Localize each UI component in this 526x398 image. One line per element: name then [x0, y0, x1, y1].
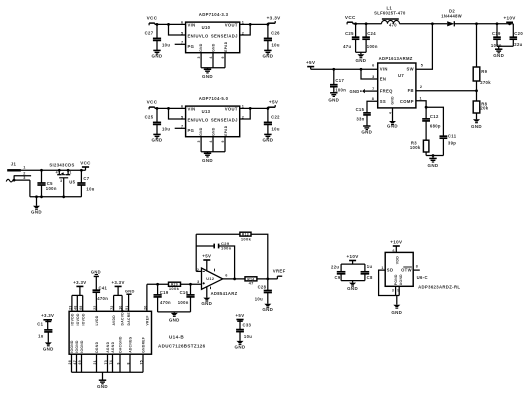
pin labels U14-B top — [71, 309, 150, 325]
svg-text:U13: U13 — [202, 109, 211, 114]
svg-text:AGND: AGND — [106, 341, 110, 352]
ground — [471, 119, 482, 129]
svg-text:C20: C20 — [514, 31, 523, 36]
svg-text:1: 1 — [381, 266, 383, 270]
capacitor C25 — [343, 24, 359, 53]
svg-text:GND: GND — [202, 74, 213, 79]
wire — [169, 24, 186, 35]
svg-text:20k: 20k — [480, 106, 488, 111]
svg-text:10u: 10u — [255, 297, 263, 302]
svg-text:VIN: VIN — [188, 107, 196, 112]
svg-text:C12: C12 — [430, 114, 439, 119]
wire (feedback riser) — [196, 234, 201, 271]
svg-text:+5V: +5V — [269, 100, 279, 105]
svg-text:AD8541ARZ: AD8541ARZ — [211, 291, 238, 296]
svg-text:GND: GND — [43, 346, 54, 351]
svg-text:DACVDD: DACVDD — [121, 309, 125, 325]
svg-text:SI2343CDS: SI2343CDS — [49, 162, 74, 167]
svg-text:C7: C7 — [83, 176, 89, 181]
svg-text:100k: 100k — [241, 237, 252, 242]
pin numbers U13 bottom — [197, 140, 225, 142]
wire — [155, 107, 186, 110]
pin numbers U5 — [56, 171, 72, 183]
svg-text:7: 7 — [372, 87, 374, 91]
svg-text:C8: C8 — [367, 275, 373, 280]
ground — [361, 126, 372, 134]
power flag +3.3V (C1) — [41, 313, 54, 330]
power flag VCC (ADP7104-5.0 input) — [147, 100, 158, 110]
svg-text:100k: 100k — [410, 145, 421, 150]
pin numbers U14-B bottom — [68, 360, 143, 364]
svg-text:EN: EN — [380, 77, 387, 82]
power flag +3.3V (IOVDD) — [73, 280, 86, 296]
svg-text:10u: 10u — [162, 126, 170, 131]
svg-text:LVDD: LVDD — [95, 315, 99, 325]
ground — [262, 134, 273, 142]
svg-text:GND: GND — [31, 209, 42, 214]
svg-text:C25: C25 — [145, 115, 154, 120]
svg-text:470n: 470n — [160, 300, 171, 305]
wire (SENSE loop) — [240, 108, 251, 119]
svg-text:DACREF: DACREF — [127, 310, 131, 326]
svg-text:680p: 680p — [430, 123, 441, 128]
svg-text:6: 6 — [181, 105, 183, 109]
svg-text:PG: PG — [188, 44, 195, 49]
svg-text:IOGND: IOGND — [75, 340, 79, 353]
ground — [202, 153, 213, 163]
svg-text:VIN: VIN — [380, 67, 388, 72]
wire — [356, 52, 367, 54]
svg-text:C33: C33 — [243, 322, 252, 327]
svg-text:68: 68 — [79, 305, 83, 309]
svg-text:3: 3 — [392, 288, 394, 292]
svg-text:VREF: VREF — [146, 315, 150, 325]
svg-text:73: 73 — [104, 360, 108, 364]
svg-text:270k: 270k — [480, 80, 491, 85]
svg-text:ADP3623ARDZ-RL: ADP3623ARDZ-RL — [418, 284, 460, 289]
transistor U5 SI2343CDS — [49, 162, 75, 196]
svg-text:C9: C9 — [335, 275, 341, 280]
svg-text:VCC: VCC — [147, 100, 158, 105]
svg-text:GNDREF: GNDREF — [142, 337, 146, 353]
ground — [262, 304, 273, 312]
IC U7 ADP1613ARMZ — [378, 56, 416, 108]
svg-text:1u: 1u — [367, 264, 373, 269]
svg-text:U6-C: U6-C — [417, 275, 428, 280]
svg-text:47u: 47u — [343, 44, 351, 49]
wire — [426, 154, 443, 158]
svg-text:+5V: +5V — [202, 253, 211, 258]
svg-text:PGND: PGND — [394, 274, 398, 285]
wire (AVDD/DACVDD pins) — [114, 295, 123, 311]
svg-text:SLF6025T-470: SLF6025T-470 — [374, 10, 406, 15]
svg-text:SW: SW — [406, 67, 413, 72]
svg-text:GND: GND — [355, 58, 366, 63]
svg-text:AGND: AGND — [111, 341, 115, 352]
svg-text:GND: GND — [212, 127, 216, 136]
capacitor C33 — [236, 321, 252, 341]
ground — [97, 380, 108, 389]
svg-text:GND: GND — [212, 43, 216, 52]
svg-text:69: 69 — [78, 360, 82, 364]
svg-text:100k: 100k — [169, 286, 180, 291]
svg-text:2: 2 — [197, 268, 199, 272]
wire — [158, 312, 191, 313]
wire (IOVDD pins) — [72, 295, 83, 311]
svg-text:2: 2 — [23, 171, 25, 175]
svg-text:5: 5 — [181, 31, 183, 35]
svg-text:+3.3V: +3.3V — [111, 280, 124, 285]
svg-text:C17: C17 — [335, 78, 344, 83]
ground flag (FREQ) — [349, 89, 377, 94]
pin number U6 VDD — [393, 249, 395, 253]
wire — [392, 108, 394, 121]
IC U6-C ADP3623ARDZ-RL — [385, 252, 460, 289]
svg-text:EPAD: EPAD — [224, 125, 228, 136]
svg-text:IOVDD: IOVDD — [76, 313, 80, 325]
wire — [497, 46, 513, 49]
svg-text:2: 2 — [420, 85, 422, 89]
svg-text:1: 1 — [420, 96, 422, 100]
ground — [387, 121, 398, 129]
wire (EN loop) — [361, 69, 378, 79]
svg-text:U12: U12 — [206, 277, 214, 281]
svg-text:4: 4 — [388, 112, 392, 114]
svg-text:GND: GND — [201, 301, 212, 306]
svg-text:GND: GND — [262, 54, 273, 59]
svg-text:10: 10 — [119, 305, 123, 309]
ground — [355, 54, 366, 63]
svg-text:C28: C28 — [258, 284, 267, 289]
svg-text:33n: 33n — [356, 117, 364, 122]
power flag +10V (boost output) — [503, 16, 516, 24]
svg-text:5: 5 — [181, 115, 183, 119]
pin numbers U10 left — [181, 21, 183, 45]
svg-text:+3.3V: +3.3V — [267, 16, 281, 21]
svg-text:10u: 10u — [272, 42, 280, 47]
svg-text:GND: GND — [347, 286, 358, 291]
wire (SENSE loop) — [240, 24, 251, 35]
svg-text:100n: 100n — [221, 245, 232, 250]
pin numbers U10 right — [242, 21, 244, 36]
ground — [493, 49, 504, 58]
svg-text:IOGND: IOGND — [70, 340, 74, 353]
ground — [201, 298, 212, 306]
pin labels U14-B bottom — [70, 336, 146, 353]
power flag +10V (C9/C8) — [347, 254, 359, 264]
IC U10 ADP7104-3.3 — [186, 12, 240, 53]
power flag +3.3V — [267, 16, 281, 25]
power flag VCC (jack output) — [80, 160, 91, 170]
svg-text:SENSE/ADJ: SENSE/ADJ — [211, 118, 238, 123]
ground — [428, 158, 439, 167]
capacitor C24 — [362, 24, 378, 53]
ground — [31, 197, 42, 215]
svg-text:AGND: AGND — [399, 274, 403, 285]
capacitor C29 — [214, 241, 232, 250]
wire — [257, 278, 278, 281]
svg-text:GND: GND — [91, 269, 101, 274]
wire (outer feedback) — [196, 234, 268, 279]
svg-text:+10V: +10V — [503, 16, 516, 21]
svg-text:8: 8 — [416, 265, 418, 269]
svg-text:FREQ: FREQ — [380, 89, 393, 94]
svg-text:1u: 1u — [38, 334, 44, 339]
svg-text:22u: 22u — [514, 42, 522, 47]
svg-text:1: 1 — [69, 171, 71, 175]
svg-text:VREF: VREF — [273, 269, 286, 274]
ground — [43, 342, 54, 351]
svg-text:100n: 100n — [335, 87, 346, 92]
svg-text:VOUT: VOUT — [225, 107, 238, 112]
svg-text:C16: C16 — [180, 290, 189, 295]
ground — [391, 305, 402, 315]
svg-text:470n: 470n — [97, 296, 108, 301]
wire (C29 loop) — [196, 246, 234, 279]
power flag VCC (ADP7104-3.3 input) — [147, 16, 158, 26]
svg-text:23: 23 — [68, 305, 72, 309]
svg-text:VIN: VIN — [188, 23, 196, 28]
svg-text:AVDD: AVDD — [112, 315, 116, 326]
svg-text:470: 470 — [389, 23, 397, 28]
svg-text:+10V: +10V — [390, 239, 402, 244]
svg-text:ADUC7126BSTZ126: ADUC7126BSTZ126 — [158, 344, 206, 349]
svg-text:GND: GND — [125, 288, 135, 293]
ground (above C41) — [91, 269, 101, 276]
svg-text:ADCNEG: ADCNEG — [129, 336, 133, 352]
svg-text:10u: 10u — [272, 126, 280, 131]
wire — [454, 22, 513, 25]
svg-text:GND: GND — [391, 310, 402, 315]
wire (VREF node) — [147, 283, 202, 286]
svg-text:10u: 10u — [86, 187, 94, 192]
power flag +5V — [268, 100, 279, 109]
svg-text:+5V: +5V — [236, 313, 245, 318]
resistor R3 — [410, 140, 429, 155]
svg-text:FB: FB — [408, 88, 414, 93]
capacitor C25 — [145, 108, 171, 134]
capacitor C9 — [331, 264, 345, 281]
svg-text:GND: GND — [199, 43, 203, 52]
power flag VCC (boost input) — [345, 15, 356, 25]
pin numbers U12 — [197, 268, 228, 284]
svg-text:U5: U5 — [69, 179, 75, 184]
svg-text:IOVDD: IOVDD — [81, 313, 85, 325]
wire — [240, 107, 270, 110]
svg-text:GND: GND — [328, 97, 339, 102]
wire — [146, 284, 148, 311]
svg-text:100n: 100n — [178, 300, 189, 305]
svg-text:PG: PG — [188, 128, 195, 133]
ground — [202, 69, 213, 79]
svg-text:C1: C1 — [37, 322, 43, 327]
capacitor C12 — [422, 114, 441, 140]
svg-text:C15: C15 — [356, 107, 365, 112]
svg-text:74: 74 — [109, 360, 113, 364]
svg-text:ADP7104-5.0: ADP7104-5.0 — [199, 96, 229, 101]
wire (output) — [223, 278, 245, 281]
wire (GND pins) — [201, 53, 225, 70]
svg-text:48: 48 — [74, 305, 78, 309]
svg-text:VCC: VCC — [147, 16, 158, 21]
svg-text:C25: C25 — [345, 31, 354, 36]
svg-text:DGND: DGND — [95, 341, 99, 352]
svg-text:C11: C11 — [448, 133, 457, 138]
svg-text:EPAD: EPAD — [224, 41, 228, 52]
svg-text:GND: GND — [471, 124, 482, 129]
svg-text:3: 3 — [372, 75, 374, 79]
resistor R8 — [473, 101, 489, 119]
connector J1 (power jack) — [6, 161, 31, 182]
wire (GND pins) — [201, 137, 225, 154]
svg-text:C22: C22 — [271, 114, 280, 119]
capacitor C18 — [491, 24, 502, 48]
capacitor C11 — [440, 133, 457, 155]
wire (SS) — [367, 101, 378, 113]
ground — [169, 313, 180, 323]
svg-text:C24: C24 — [367, 31, 376, 36]
svg-text:VDD: VDD — [395, 256, 399, 265]
svg-text:GND: GND — [152, 54, 163, 59]
svg-text:4: 4 — [56, 171, 58, 175]
wire (ground bus) — [30, 195, 82, 198]
svg-text:6: 6 — [372, 63, 374, 67]
capacitor C28 — [255, 279, 272, 304]
svg-text:6: 6 — [225, 273, 227, 277]
svg-text:GND: GND — [199, 127, 203, 136]
ground — [347, 283, 358, 292]
wire — [169, 108, 186, 119]
wire (PG stub) — [175, 127, 186, 129]
svg-text:GND: GND — [262, 138, 273, 143]
svg-text:J1: J1 — [11, 161, 17, 166]
wire (FB) — [416, 89, 478, 92]
capacitor C5 — [37, 170, 56, 197]
pin numbers U10 bottom — [197, 56, 225, 58]
wire — [240, 23, 270, 26]
svg-text:C26: C26 — [271, 30, 280, 35]
ground — [152, 50, 163, 58]
svg-text:100n: 100n — [367, 44, 378, 49]
svg-text:10u: 10u — [244, 334, 252, 339]
svg-text:8: 8 — [126, 362, 130, 364]
capacitor C16 — [178, 284, 195, 312]
svg-text:+3.3V: +3.3V — [41, 313, 54, 318]
svg-text:GND: GND — [493, 53, 504, 58]
wire — [341, 281, 365, 283]
svg-text:7: 7 — [181, 41, 183, 45]
capacitor C41 — [93, 276, 109, 311]
capacitor C22 — [264, 108, 280, 134]
svg-text:EN/UVLO: EN/UVLO — [188, 118, 209, 123]
wire — [29, 180, 31, 197]
svg-text:+5V: +5V — [306, 60, 316, 65]
power flag +5V (C33) — [236, 313, 245, 330]
svg-text:SD: SD — [387, 267, 394, 272]
svg-text:9: 9 — [116, 362, 120, 364]
svg-text:10u: 10u — [162, 42, 170, 47]
wire — [155, 23, 186, 26]
svg-text:R9: R9 — [481, 69, 487, 74]
svg-text:3: 3 — [60, 179, 62, 183]
pin numbers U7 right — [420, 63, 424, 100]
svg-text:47: 47 — [249, 281, 255, 286]
svg-text:47: 47 — [73, 360, 77, 364]
svg-text:U7: U7 — [398, 73, 404, 78]
wire — [476, 81, 478, 101]
capacitor C17 — [330, 69, 346, 93]
capacitor C7 — [77, 170, 94, 197]
capacitor C19 — [154, 284, 172, 312]
svg-text:GND: GND — [235, 345, 246, 350]
capacitor C26 — [264, 24, 280, 50]
capacitor C1 — [37, 322, 52, 343]
svg-text:75: 75 — [139, 360, 143, 364]
pin numbers U13 right — [242, 105, 244, 120]
ground — [262, 50, 273, 58]
svg-text:U14-B: U14-B — [169, 335, 184, 340]
pin numbers U7 left — [372, 63, 375, 101]
ground — [328, 93, 339, 103]
ground (DACREF) — [125, 288, 135, 311]
power flag +5V (op amp) — [202, 253, 211, 260]
svg-text:VCC: VCC — [345, 15, 356, 20]
svg-text:C27: C27 — [145, 31, 154, 36]
wire — [426, 107, 443, 136]
svg-text:21: 21 — [93, 360, 97, 364]
svg-text:VCC: VCC — [80, 160, 91, 165]
svg-text:DACGND: DACGND — [119, 336, 123, 353]
pin numbers U13 left — [181, 105, 183, 129]
svg-text:IOGND: IOGND — [80, 340, 84, 353]
svg-text:IOVDD: IOVDD — [71, 313, 75, 325]
wire (PG stub) — [175, 43, 186, 45]
wire (COMP) — [416, 101, 428, 119]
resistor R14 — [245, 277, 257, 286]
pin numbers U6 — [381, 265, 418, 293]
svg-text:GND: GND — [428, 163, 439, 168]
op-amp U12 AD8541ARZ — [202, 260, 238, 298]
resistor R13 — [240, 232, 252, 241]
power flag +3.3V (AVDD) — [111, 280, 124, 296]
svg-text:22u: 22u — [331, 265, 339, 270]
svg-text:C41: C41 — [99, 285, 108, 290]
svg-text:GND: GND — [390, 96, 394, 105]
svg-text:ADP7104-3.3: ADP7104-3.3 — [199, 12, 229, 17]
svg-text:3: 3 — [197, 280, 199, 284]
svg-text:20: 20 — [143, 305, 147, 309]
wire — [353, 22, 382, 25]
svg-text:ADP1613ARMZ: ADP1613ARMZ — [379, 56, 413, 61]
svg-text:3: 3 — [23, 176, 25, 180]
pin number U7 GND — [388, 112, 392, 114]
svg-text:COMP: COMP — [400, 99, 414, 104]
ground — [235, 341, 246, 350]
capacitor C27 — [145, 24, 171, 50]
svg-text:GND: GND — [97, 384, 108, 389]
pin numbers U14-B top — [68, 305, 147, 309]
wire (SD loop) — [379, 270, 396, 295]
svg-text:7: 7 — [181, 125, 183, 129]
capacitor C8 — [361, 264, 373, 281]
wire (gnd pins) — [396, 286, 400, 304]
svg-text:39p: 39p — [448, 141, 456, 146]
net label VREF — [273, 269, 286, 279]
IC U13 ADP7104-5.0 — [186, 96, 240, 137]
svg-text:72: 72 — [110, 305, 114, 309]
wire (VIN feed) — [311, 68, 378, 71]
svg-text:+10V: +10V — [347, 254, 359, 259]
